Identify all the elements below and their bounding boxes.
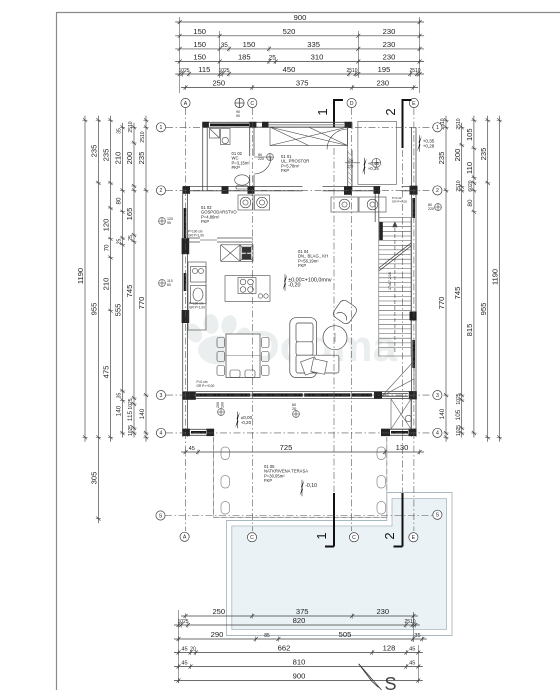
right exterior wall E lines	[411, 127, 416, 436]
right dim chain 235-955	[485, 116, 490, 442]
svg-text:35: 35	[221, 42, 229, 49]
staircase treads	[379, 218, 411, 357]
terrace dim 45-725-130	[181, 449, 424, 454]
svg-text:2: 2	[436, 188, 439, 194]
svg-text:745: 745	[125, 285, 134, 298]
axis row3 line	[166, 394, 433, 396]
level marker UL	[364, 158, 367, 166]
left dim chain 235-770-140	[143, 116, 148, 442]
window band top wall	[210, 124, 249, 127]
svg-text:250: 250	[212, 79, 225, 88]
svg-text:1: 1	[314, 532, 329, 539]
svg-text:35: 35	[117, 393, 123, 399]
svg-text:90: 90	[236, 114, 240, 118]
WC sink	[210, 129, 231, 145]
top dim chain 150-520-230	[175, 33, 424, 38]
svg-text:105: 105	[455, 409, 462, 420]
svg-text:128: 128	[383, 644, 396, 653]
top dim chain 150-185-25-310-230	[175, 59, 424, 64]
bottom dim chain 900	[174, 678, 423, 683]
wall D hatch	[348, 152, 352, 185]
svg-text:900: 900	[293, 672, 306, 681]
svg-text:230: 230	[376, 607, 389, 616]
svg-text:-0,20: -0,20	[288, 283, 300, 289]
right dim chain 235-770-140	[443, 116, 448, 442]
entry bay outline	[358, 121, 397, 184]
svg-text:165: 165	[125, 208, 134, 221]
interior wall C lines	[250, 122, 254, 191]
svg-text:GR P=1,00: GR P=1,00	[188, 233, 204, 237]
svg-text:105: 105	[465, 128, 474, 141]
window right wall below row2	[412, 198, 415, 218]
axis A line	[185, 108, 187, 531]
columns row1	[202, 122, 351, 128]
svg-text:250: 250	[212, 607, 225, 616]
left dim chain 200-165-745-115	[131, 123, 136, 438]
grid bubble E top	[409, 98, 418, 107]
row bubble S left	[156, 511, 165, 520]
axis E line	[413, 108, 415, 531]
axis D line	[351, 108, 353, 531]
svg-text:662: 662	[278, 644, 291, 653]
row bubble S right	[433, 510, 442, 519]
svg-text:310: 310	[311, 53, 324, 62]
svg-text:45: 45	[409, 661, 415, 667]
row bubble 3 left	[156, 391, 165, 400]
dining table	[226, 334, 260, 378]
columns row3	[182, 391, 416, 400]
bottom dim chain 45-810-45	[174, 664, 423, 669]
svg-text:475: 475	[102, 366, 111, 379]
svg-text:PKP: PKP	[232, 165, 241, 170]
svg-text:2510: 2510	[346, 68, 357, 74]
svg-text:1190: 1190	[491, 269, 500, 285]
svg-text:2: 2	[382, 532, 397, 539]
row bubble 1 left	[156, 123, 165, 132]
section marker 2 top	[403, 99, 412, 148]
row3 wall lines	[183, 392, 417, 399]
svg-text:2510: 2510	[140, 131, 146, 142]
svg-text:2: 2	[383, 108, 398, 115]
top dim extension lines	[180, 17, 420, 93]
svg-text:2510: 2510	[456, 180, 462, 191]
axis row1 line	[166, 126, 433, 128]
svg-text:FKP: FKP	[281, 168, 289, 173]
svg-text:1: 1	[160, 125, 163, 131]
svg-text:90: 90	[167, 221, 171, 225]
window label 60-20 strip	[293, 411, 300, 418]
row4 window left	[191, 431, 206, 434]
svg-text:115: 115	[127, 410, 134, 421]
column wall A mid1	[182, 238, 190, 254]
row bubble 2 left	[156, 186, 165, 195]
svg-text:GR P=+0,00: GR P=+0,00	[197, 384, 215, 388]
svg-text:810: 810	[293, 658, 306, 667]
row3 glazing band	[196, 393, 372, 396]
gospodarstvo lower wall	[187, 238, 253, 242]
row2 wall lines	[183, 187, 414, 191]
row3 dark block	[374, 392, 382, 399]
top dim chain axes 250-375-230	[181, 85, 418, 90]
svg-text:1025: 1025	[178, 68, 189, 74]
section 2 dashdot continuation	[402, 150, 404, 492]
columns row2	[183, 186, 418, 195]
row bubble 4 left	[156, 428, 165, 437]
column mid stairs	[410, 312, 417, 320]
svg-text:520: 520	[283, 27, 296, 36]
left dim chain 235-955-305	[96, 116, 101, 523]
under-stair triangle upper	[382, 361, 414, 396]
door opening row2 mid	[303, 186, 323, 192]
svg-text:150: 150	[193, 27, 206, 36]
svg-text:2510: 2510	[128, 121, 134, 132]
svg-text:GR P=0,00: GR P=0,00	[392, 200, 407, 204]
svg-text:200: 200	[216, 402, 220, 408]
svg-text:17x17,2/28: 17x17,2/28	[388, 272, 392, 290]
row4 wall right segment	[381, 429, 417, 435]
svg-text:FKP: FKP	[298, 263, 306, 268]
under-stair triangle lower	[391, 399, 412, 429]
wardrobe hatched	[270, 127, 348, 145]
level marker living	[284, 275, 287, 283]
staircase walk line	[393, 222, 397, 352]
svg-text:150: 150	[193, 53, 206, 62]
svg-text:E: E	[412, 101, 416, 107]
svg-text:35: 35	[414, 633, 420, 639]
columns row4	[182, 429, 416, 436]
svg-text:770: 770	[137, 297, 146, 310]
bottom dim chain 820	[174, 622, 420, 627]
svg-text:2: 2	[160, 188, 163, 194]
kitchen counter left	[188, 262, 206, 330]
row3 window right thin	[382, 394, 408, 397]
window label 200-100 rotated	[218, 409, 225, 416]
border frame top line	[56, 12, 560, 14]
svg-text:-0,20: -0,20	[241, 420, 252, 425]
svg-text:235: 235	[90, 145, 99, 158]
level marker terrace strip	[237, 412, 240, 420]
svg-text:3: 3	[160, 393, 163, 399]
svg-text:815: 815	[465, 324, 474, 337]
svg-text:20: 20	[292, 407, 296, 411]
grid bubble A top	[181, 98, 190, 107]
window label 120-90 left	[159, 218, 166, 225]
grid bubble C top	[248, 98, 257, 107]
svg-text:2510: 2510	[404, 619, 415, 625]
svg-text:1025: 1025	[177, 619, 188, 625]
svg-text:25: 25	[117, 239, 123, 245]
svg-text:1025: 1025	[128, 398, 134, 409]
svg-text:955: 955	[479, 303, 488, 316]
svg-text:375: 375	[296, 79, 309, 88]
svg-text:1025: 1025	[218, 68, 229, 74]
svg-text:35: 35	[117, 128, 123, 134]
svg-text:2510: 2510	[456, 118, 462, 129]
border frame left line	[56, 13, 58, 690]
axis S line	[165, 515, 433, 517]
coffee table round	[323, 326, 347, 350]
svg-text:100: 100	[221, 402, 225, 408]
row bubble 2 right	[433, 186, 442, 195]
svg-text:80: 80	[467, 199, 474, 207]
grid bubble A bottom	[180, 532, 189, 541]
staircase break line	[379, 243, 411, 271]
svg-text:150: 150	[193, 40, 206, 49]
svg-text:6020: 6020	[468, 180, 474, 191]
north arrow	[359, 664, 382, 690]
svg-text:4: 4	[436, 431, 439, 437]
svg-text:A: A	[183, 535, 187, 541]
left exterior wall A lines	[183, 187, 188, 437]
svg-text:GR P=1,00: GR P=1,00	[189, 305, 205, 309]
pool fill	[232, 499, 447, 630]
row3 glazing gaps	[251, 393, 351, 397]
section marker 1 top	[334, 99, 343, 127]
left wall of WC block	[203, 122, 208, 191]
svg-text:+0,28: +0,28	[423, 144, 435, 149]
svg-text:200: 200	[125, 152, 134, 165]
svg-text:45: 45	[409, 647, 415, 653]
grid bubble D bottom	[349, 533, 358, 542]
svg-text:140: 140	[139, 408, 146, 419]
left dim chain 235-120-70-210-475	[108, 116, 113, 442]
svg-text:110: 110	[465, 162, 474, 174]
row4 wall left segment	[183, 429, 214, 435]
WC toilet	[235, 175, 250, 189]
armchair	[331, 298, 358, 325]
watermark paw and Dogma	[183, 313, 398, 371]
interior wall D lines	[348, 122, 352, 191]
svg-text:45: 45	[189, 446, 195, 452]
svg-text:235: 235	[137, 152, 146, 165]
svg-text:E: E	[412, 535, 416, 541]
svg-text:290: 290	[211, 630, 224, 639]
svg-text:S: S	[385, 674, 397, 690]
svg-text:45: 45	[181, 647, 187, 653]
svg-text:115: 115	[198, 65, 210, 74]
svg-text:1025: 1025	[456, 425, 462, 436]
svg-text:120: 120	[102, 219, 111, 232]
row bubble 3 right	[433, 391, 442, 400]
bottom dim chain 290-85-505-35	[174, 636, 427, 641]
kitchen tall units	[331, 197, 386, 212]
grid bubble E bottom	[409, 533, 418, 542]
stair top dark block	[379, 222, 383, 240]
svg-text:235: 235	[102, 149, 111, 162]
column wall E mid	[410, 312, 417, 321]
terrace dashed edges	[214, 437, 387, 517]
svg-text:60: 60	[167, 283, 171, 287]
wardrobe back line top wall	[262, 124, 344, 126]
svg-text:230: 230	[376, 79, 389, 88]
svg-text:FKP: FKP	[201, 219, 209, 224]
grid bubble C bottom	[247, 533, 256, 542]
svg-text:140: 140	[116, 405, 123, 416]
svg-text:955: 955	[90, 303, 99, 316]
section 1 dashdot continuation	[333, 148, 335, 492]
svg-text:C: C	[352, 535, 356, 541]
svg-text:2510: 2510	[409, 68, 420, 74]
svg-text:70: 70	[104, 244, 111, 252]
row4 window right	[391, 431, 408, 434]
row bubble 4 right	[433, 428, 442, 437]
svg-text:210: 210	[102, 278, 111, 291]
svg-text:210: 210	[114, 152, 123, 165]
pantry hatched box 1	[221, 245, 240, 261]
svg-text:140: 140	[439, 408, 446, 419]
svg-text:235: 235	[437, 152, 446, 165]
pool outer border	[227, 493, 453, 636]
svg-text:150: 150	[243, 40, 256, 49]
svg-text:450: 450	[283, 65, 296, 74]
terrace column ovals	[221, 447, 386, 514]
door opening wall D	[347, 129, 352, 150]
door arc WC	[254, 157, 271, 174]
svg-text:555: 555	[114, 304, 123, 317]
svg-text:200: 200	[453, 149, 462, 162]
survey point B top	[235, 98, 244, 107]
top dim chain small segments	[175, 71, 424, 76]
svg-text:A: A	[184, 101, 188, 107]
level marker outside E	[419, 136, 422, 144]
svg-text:820: 820	[293, 616, 306, 625]
door arc wall D	[327, 129, 348, 150]
bottom dim chain 250-375-230	[181, 613, 418, 618]
svg-text:1025: 1025	[456, 393, 462, 404]
svg-text:230: 230	[383, 27, 396, 36]
section marker 2 bottom	[394, 493, 403, 547]
top dim chain 900	[175, 19, 424, 24]
svg-text:C: C	[250, 535, 254, 541]
svg-text:FKP: FKP	[264, 478, 272, 483]
svg-text:745: 745	[453, 287, 462, 300]
grid bubble D top	[347, 98, 356, 107]
top dim chain 150-35-150-335-230	[175, 46, 424, 51]
svg-text:220: 220	[258, 157, 264, 161]
rug rotated	[301, 357, 328, 375]
row bubble 1 right	[433, 123, 442, 132]
svg-text:220: 220	[428, 207, 434, 211]
svg-text:20: 20	[190, 647, 196, 653]
door opening row2 stair	[381, 186, 402, 192]
sofa	[290, 318, 339, 378]
window label 110-60 left	[159, 280, 166, 287]
svg-text:305: 305	[90, 472, 99, 485]
axis C line	[251, 108, 253, 531]
svg-text:3: 3	[436, 393, 439, 399]
svg-text:185: 185	[238, 53, 251, 62]
svg-text:220: 220	[347, 164, 353, 168]
svg-text:1190: 1190	[76, 268, 85, 284]
svg-text:25: 25	[269, 55, 277, 62]
window label 110-220	[345, 162, 360, 164]
level marker terrace	[301, 480, 304, 488]
stair left wall	[375, 191, 379, 222]
svg-text:S: S	[159, 513, 163, 519]
pantry hatched box 2	[240, 245, 253, 261]
window left wall lower	[184, 273, 187, 291]
section marker 1 bottom	[325, 493, 334, 547]
svg-text:D: D	[350, 101, 354, 107]
bottom dim chain 45-20-662-128-45	[174, 650, 423, 655]
svg-text:230: 230	[383, 53, 396, 62]
right dim chain 105-110-6020-80-815	[471, 116, 476, 438]
dining chairs	[217, 338, 269, 378]
svg-text:770: 770	[437, 297, 446, 310]
bottom dim extension lines	[179, 610, 419, 683]
svg-text:110: 110	[347, 159, 353, 163]
washing machines	[238, 195, 270, 210]
svg-text:-0,10: -0,10	[305, 483, 317, 489]
svg-text:230: 230	[383, 40, 396, 49]
svg-text:1: 1	[315, 108, 330, 115]
svg-text:25: 25	[128, 235, 134, 241]
svg-text:235: 235	[479, 148, 488, 161]
svg-text:85: 85	[264, 633, 270, 639]
terrace outline	[214, 437, 387, 517]
svg-text:195: 195	[378, 65, 391, 74]
svg-text:1: 1	[436, 125, 439, 131]
svg-text:4: 4	[160, 431, 163, 437]
window left wall upper	[184, 208, 187, 238]
right dim chain 200-745	[459, 123, 464, 438]
window right wall stairs	[412, 340, 415, 368]
svg-text:1025: 1025	[128, 425, 134, 436]
svg-text:375: 375	[296, 607, 309, 616]
axis row2 line	[166, 189, 433, 191]
svg-text:900: 900	[294, 13, 307, 22]
svg-text:725: 725	[280, 443, 293, 452]
axis row4 line	[166, 432, 433, 434]
left dim chain 210-80-165-25-555-35-140	[120, 123, 125, 438]
column wall A mid2	[182, 310, 190, 323]
kitchen island	[225, 276, 270, 302]
left dim chain 1190	[82, 116, 87, 442]
svg-text:130: 130	[396, 443, 409, 452]
svg-text:C: C	[250, 101, 254, 107]
svg-text:80: 80	[116, 197, 123, 205]
svg-text:S: S	[436, 513, 440, 519]
right dim chain 1190	[497, 116, 502, 442]
svg-text:505: 505	[339, 630, 352, 639]
top exterior wall row1 lines	[203, 122, 353, 127]
door opening wall C	[249, 156, 254, 175]
svg-text:45: 45	[181, 661, 187, 667]
svg-text:335: 335	[307, 40, 320, 49]
